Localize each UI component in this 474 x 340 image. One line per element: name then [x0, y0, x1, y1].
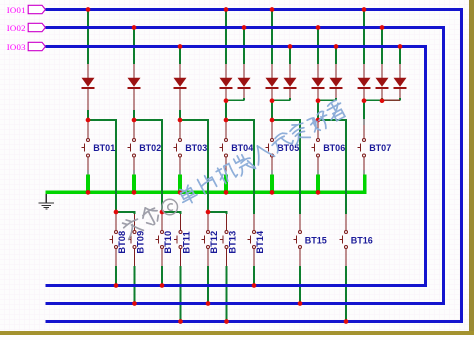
- junction bus tap x180: [178, 44, 183, 49]
- button BT10: [155, 214, 173, 266]
- wire join to node 272: [271, 101, 273, 119]
- wire BT08 to bottom bus: [115, 266, 117, 286]
- button BT01: [81, 121, 115, 174]
- svg-text:BT08: BT08: [117, 231, 127, 254]
- svg-text:BT16: BT16: [351, 235, 373, 245]
- wire BT12 to bottom bus: [207, 266, 209, 304]
- junction bus tap x364: [362, 7, 367, 12]
- wire BT02 to GND bus: [132, 174, 136, 190]
- junction GND bus x88: [86, 190, 91, 195]
- wire cathode join y100 col 226: [226, 100, 244, 102]
- wire bus to diode D12: [399, 47, 401, 65]
- svg-text:BT04: BT04: [231, 143, 253, 153]
- svg-text:BT11: BT11: [182, 231, 192, 253]
- wire cathode elbow x382: [381, 98, 383, 100]
- junction node 134 y120: [132, 118, 137, 123]
- junction jog x208 y212: [206, 210, 211, 215]
- wire jog node134 to x162: [134, 119, 163, 121]
- button BT03: [173, 121, 207, 174]
- wire bus to diode D6: [271, 10, 273, 65]
- wire join to node 226: [225, 101, 227, 119]
- wire bus to diode D2: [133, 28, 135, 65]
- junction bottom bus x134.5: [132, 301, 137, 306]
- button BT07: [357, 125, 391, 174]
- button BT09: [128, 214, 146, 266]
- junction bottom bus x208: [206, 301, 211, 306]
- junction bottom bus x162: [160, 283, 165, 288]
- wire cathode join y100 col 272: [272, 100, 290, 102]
- svg-text:BT09: BT09: [136, 231, 146, 254]
- sheet border: [469, 0, 474, 335]
- wire split x116 to x134.5: [115, 212, 117, 214]
- junction node 180 y120: [178, 118, 183, 123]
- wire BT03 to GND bus: [178, 174, 182, 190]
- junction GND bus x180: [178, 190, 183, 195]
- wire bus to diode D1: [87, 10, 89, 65]
- wire cathode elbow x244: [243, 98, 245, 100]
- diode D6: [266, 64, 279, 101]
- junction bus tap x318: [316, 25, 321, 30]
- junction bus tap x400: [398, 44, 403, 49]
- wire jog node226 to x254: [226, 119, 255, 121]
- junction node 318 y120: [316, 118, 321, 123]
- wire split x162 to x180.5: [161, 212, 163, 214]
- junction bus tap x134: [132, 25, 137, 30]
- wire BT13 to bottom bus: [226, 266, 228, 322]
- wire GND bus: [46, 174, 365, 192]
- svg-text:BT01: BT01: [93, 143, 115, 153]
- junction bus tap x272: [270, 7, 275, 12]
- junction cathode col364 x364: [362, 98, 367, 103]
- button BT02: [127, 121, 161, 174]
- junction bus tap x382: [380, 25, 385, 30]
- svg-text:BT10: BT10: [163, 231, 173, 254]
- wire join to node 364: [363, 101, 365, 119]
- button BT06: [311, 121, 345, 174]
- junction bottom bus x254: [252, 283, 257, 288]
- wire BT16 to bottom bus: [345, 266, 347, 322]
- junction bus tap x226: [224, 7, 229, 12]
- wire jog node180 to x208: [180, 119, 209, 121]
- junction bus tap x290: [288, 44, 293, 49]
- junction bus tap x244: [242, 25, 247, 30]
- diode D12: [394, 64, 407, 98]
- button BT04: [219, 121, 253, 174]
- wire join to node 318: [317, 101, 319, 119]
- junction node 226 y120: [224, 118, 229, 123]
- button BT14: [247, 214, 265, 266]
- junction bottom bus x116: [114, 283, 119, 288]
- wire split x208 to x226.5: [207, 212, 209, 214]
- wire cathode join y100 col 364: [364, 100, 382, 102]
- diode D3: [174, 64, 187, 110]
- wire diode to node 180: [179, 110, 181, 120]
- diode D10: [358, 64, 371, 101]
- svg-text:BT03: BT03: [185, 143, 207, 153]
- svg-text:BT12: BT12: [209, 231, 219, 254]
- junction GND bus x226: [224, 190, 229, 195]
- wire BT15 to bottom bus: [299, 266, 301, 304]
- junction bottom bus x346: [344, 319, 349, 324]
- wire jog node272 to x300: [272, 119, 301, 121]
- svg-text:BT06: BT06: [323, 143, 345, 153]
- button BT12: [201, 214, 219, 266]
- junction cathode col272 x272: [270, 98, 275, 103]
- junction cathode col226 x226: [224, 98, 229, 103]
- wire BT11 to bottom bus: [180, 266, 182, 322]
- junction GND bus x134: [132, 190, 137, 195]
- wire bus to diode D3: [179, 47, 181, 65]
- wire bus to diode D9: [335, 47, 337, 65]
- junction bottom bus x180.5: [178, 319, 183, 324]
- wire bus to diode D5: [243, 28, 245, 65]
- diode D8: [312, 64, 325, 101]
- button BT15: [293, 214, 327, 266]
- button BT11: [174, 214, 192, 266]
- diode D2: [128, 64, 141, 110]
- wire BT14 to bottom bus: [253, 266, 255, 286]
- junction jog x162 y212: [160, 210, 165, 215]
- port IO02: [28, 23, 45, 31]
- wire bus to diode D7: [289, 47, 291, 65]
- button BT16: [339, 214, 373, 266]
- svg-text:IO01: IO01: [7, 5, 26, 15]
- ground: [38, 192, 54, 209]
- junction GND bus x272: [270, 190, 275, 195]
- junction jog x116 y212: [114, 210, 119, 215]
- junction bus tap x88: [86, 7, 91, 12]
- junction bottom bus x226.5: [224, 319, 229, 324]
- wire BT10 to bottom bus: [161, 266, 163, 286]
- wire cathode join y100 col 318: [318, 100, 336, 102]
- diode D1: [82, 64, 95, 110]
- wire cathode elbow x400: [399, 98, 401, 100]
- wire net IO02 bus loop: [46, 28, 444, 304]
- junction bottom bus x300: [298, 301, 303, 306]
- watermark text (decorative): [120, 99, 347, 240]
- wire BT01 to GND bus: [86, 174, 90, 190]
- button BT08: [109, 214, 127, 266]
- diode D4: [220, 64, 233, 101]
- wire jog node318 to x346: [318, 119, 347, 121]
- diode D5: [238, 64, 251, 98]
- diode D7: [284, 64, 297, 98]
- wire diode to node 134: [133, 110, 135, 120]
- junction bus tap x336: [334, 44, 339, 49]
- wire bus to diode D10: [363, 10, 365, 65]
- junction GND bus x318: [316, 190, 321, 195]
- wire bus to diode D11: [381, 28, 383, 65]
- wire cathode elbow x290: [289, 98, 291, 100]
- svg-text:BT07: BT07: [369, 143, 391, 153]
- svg-text:BT15: BT15: [305, 235, 327, 245]
- svg-text:IO03: IO03: [7, 42, 26, 52]
- wire cathode elbow x336: [335, 98, 337, 100]
- wire BT09 to bottom bus: [134, 266, 136, 304]
- junction node 88 y120: [86, 118, 91, 123]
- wire jog node88 to x116: [88, 119, 117, 121]
- wire net IO03 bus loop: [46, 47, 426, 286]
- svg-text:BT13: BT13: [228, 231, 238, 254]
- button BT13: [220, 214, 238, 266]
- wire bus to diode D4: [225, 10, 227, 65]
- port IO01: [28, 5, 45, 13]
- junction cathode col318 x318: [316, 98, 321, 103]
- wire BT04 to GND bus: [224, 174, 228, 190]
- svg-text:IO02: IO02: [7, 23, 26, 33]
- svg-text:BT02: BT02: [139, 143, 161, 153]
- diode D11: [376, 64, 389, 98]
- wire diode to node 88: [87, 110, 89, 120]
- port IO03: [28, 42, 45, 50]
- junction node 272 y120: [270, 118, 275, 123]
- svg-text:BT14: BT14: [255, 230, 265, 254]
- wire BT05 to GND bus: [270, 174, 274, 190]
- diode D9: [330, 64, 343, 98]
- button BT05: [265, 121, 299, 174]
- wire bus to diode D8: [317, 28, 319, 65]
- wire BT06 to GND bus: [316, 174, 320, 190]
- junction cathode col364 x382: [380, 98, 385, 103]
